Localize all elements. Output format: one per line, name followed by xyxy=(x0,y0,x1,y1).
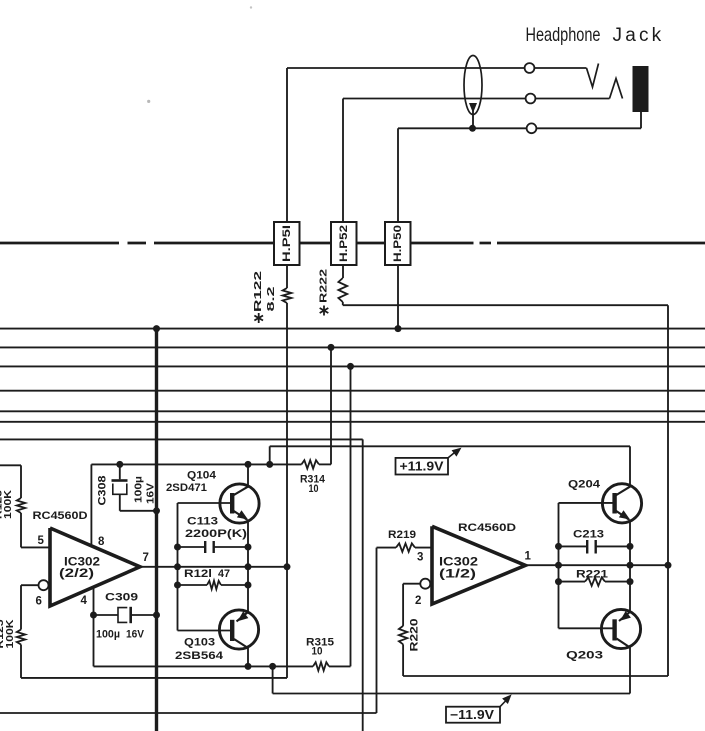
svg-text:8.2: 8.2 xyxy=(266,286,277,312)
svg-text:7: 7 xyxy=(143,552,149,564)
svg-text:Q103: Q103 xyxy=(184,637,215,649)
svg-text:3: 3 xyxy=(417,552,423,564)
svg-text:Q104: Q104 xyxy=(187,470,217,482)
svg-text:100µ: 100µ xyxy=(133,476,145,503)
svg-text:8: 8 xyxy=(98,536,105,548)
svg-text:R221: R221 xyxy=(576,569,608,581)
svg-text:Headphone: Headphone xyxy=(526,24,601,46)
svg-text:4: 4 xyxy=(81,595,88,607)
svg-text:Jack: Jack xyxy=(613,25,665,46)
svg-text:+11.9V: +11.9V xyxy=(400,460,445,474)
svg-text:−11.9V: −11.9V xyxy=(450,708,495,722)
svg-text:C309: C309 xyxy=(105,591,138,603)
svg-text:2: 2 xyxy=(415,595,421,607)
svg-text:(1/2): (1/2) xyxy=(439,569,476,581)
svg-text:R125: R125 xyxy=(0,619,6,648)
svg-text:H.P5I: H.P5I xyxy=(281,225,293,262)
svg-text:Q204: Q204 xyxy=(568,479,601,491)
svg-text:IC302: IC302 xyxy=(439,557,478,569)
svg-text:2SB564: 2SB564 xyxy=(175,650,224,662)
svg-text:H.P52: H.P52 xyxy=(338,225,350,262)
svg-text:16V: 16V xyxy=(126,629,145,641)
svg-text:RC4560D: RC4560D xyxy=(33,510,88,522)
svg-text:C308: C308 xyxy=(97,476,109,506)
svg-text:R122: R122 xyxy=(253,270,264,312)
svg-text:2200P(K): 2200P(K) xyxy=(185,528,247,540)
svg-text:2SD471: 2SD471 xyxy=(166,482,207,494)
svg-text:6: 6 xyxy=(36,596,42,608)
svg-text:R219: R219 xyxy=(388,529,416,541)
svg-text:C213: C213 xyxy=(573,529,604,541)
svg-text:RC4560D: RC4560D xyxy=(458,522,516,534)
svg-text:1: 1 xyxy=(525,551,532,563)
svg-text:IC302: IC302 xyxy=(64,557,100,569)
svg-text:R123: R123 xyxy=(0,490,5,519)
svg-text:16V: 16V xyxy=(145,483,157,504)
svg-text:R220: R220 xyxy=(409,619,421,652)
svg-text:Q203: Q203 xyxy=(566,650,603,662)
svg-text:R222: R222 xyxy=(319,268,330,303)
svg-text:R12l: R12l xyxy=(184,568,212,580)
svg-text:(2/2): (2/2) xyxy=(59,568,94,580)
svg-text:47: 47 xyxy=(218,568,230,580)
svg-text:C113: C113 xyxy=(187,516,218,528)
svg-text:5: 5 xyxy=(38,535,45,547)
svg-text:10: 10 xyxy=(312,646,323,658)
svg-text:10: 10 xyxy=(309,483,319,495)
svg-text:H.P50: H.P50 xyxy=(392,225,404,262)
svg-text:100µ: 100µ xyxy=(96,629,120,641)
